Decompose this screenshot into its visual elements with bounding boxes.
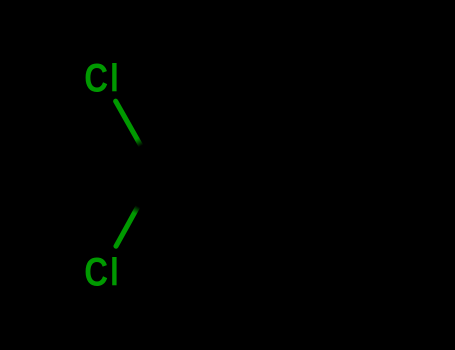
svg-text:C: C xyxy=(84,249,108,294)
svg-text:l: l xyxy=(110,251,119,294)
svg-text:l: l xyxy=(110,57,119,100)
svg-text:C: C xyxy=(84,55,108,100)
